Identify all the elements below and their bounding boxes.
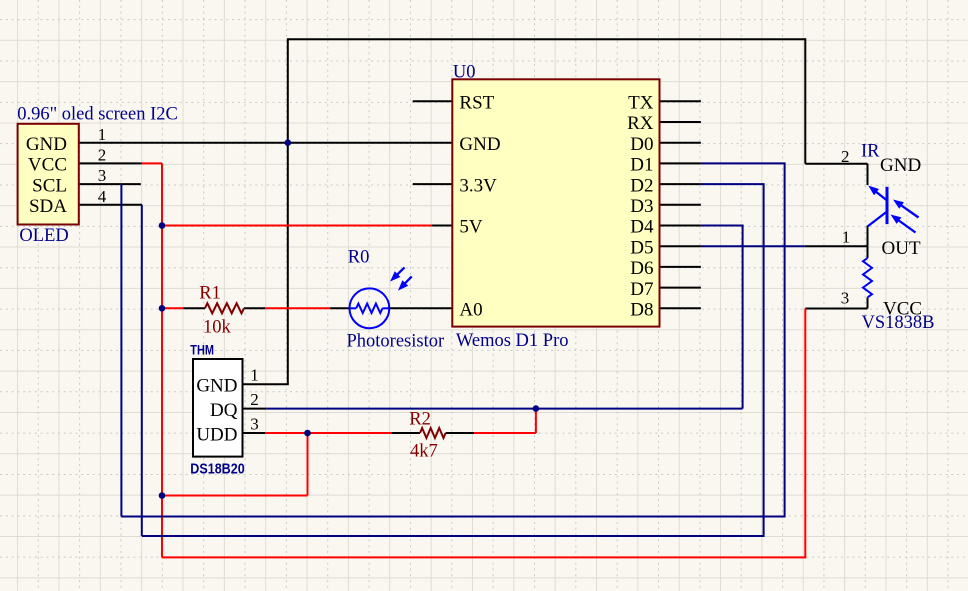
svg-text:5V: 5V (459, 217, 483, 238)
junction DQ (533, 405, 540, 412)
svg-text:SCL: SCL (32, 175, 67, 196)
wire OLED VCC stub (79, 162, 142, 164)
junction UDD (304, 430, 311, 437)
wire THM UDD stub (243, 432, 266, 434)
svg-text:DQ: DQ (210, 400, 238, 421)
wire OLED SCL stub (79, 183, 141, 185)
resistor inside IR receiver (blue vertical zigzag) (863, 258, 872, 297)
wire R2 right red (474, 432, 536, 434)
wire D2 navy (701, 183, 765, 185)
junction 5V-A (159, 222, 166, 229)
svg-text:THM: THM (190, 342, 214, 358)
svg-text:D7: D7 (630, 279, 653, 300)
wire D1 navy (701, 162, 786, 164)
svg-text:10k: 10k (203, 318, 232, 338)
wire D8 stub (660, 307, 701, 309)
transistor IR VS1838B base bar (886, 187, 889, 224)
photoresistor R0 symbol (350, 288, 390, 328)
wire R1 right red (265, 307, 330, 309)
svg-text:TX: TX (628, 93, 654, 114)
svg-text:GND: GND (880, 155, 921, 176)
wire D4 navy (701, 225, 744, 227)
svg-text:4: 4 (98, 187, 107, 206)
svg-text:R0: R0 (348, 247, 370, 267)
wire D1 stub black (660, 162, 701, 164)
wire DQ net navy (266, 408, 742, 410)
wire D6 stub (660, 266, 701, 268)
svg-text:IR: IR (861, 142, 880, 162)
component THM DS18B20 box (193, 359, 243, 457)
svg-text:Photoresistor: Photoresistor (347, 332, 445, 352)
svg-text:OLED: OLED (19, 226, 68, 246)
svg-text:3: 3 (98, 166, 107, 185)
wire GND vertical right to IR (804, 38, 806, 164)
svg-text:2: 2 (250, 390, 259, 409)
component U0 Wemos D1 Pro box (452, 79, 659, 326)
wire R2 leads (392, 432, 420, 434)
wire 5V red from OLED VCC (142, 162, 163, 164)
svg-text:GND: GND (459, 134, 500, 155)
wire 5V stub black (432, 225, 453, 227)
wire RST stub (413, 100, 453, 102)
svg-text:D8: D8 (630, 300, 653, 321)
wire D3 stub (660, 204, 701, 206)
svg-text:U0: U0 (453, 63, 476, 83)
svg-text:D6: D6 (630, 258, 653, 279)
svg-text:VCC: VCC (883, 299, 922, 320)
resistor R2 (420, 428, 446, 438)
wire D2 stub black (660, 183, 701, 185)
svg-text:GND: GND (26, 134, 67, 155)
wire 3.3V stub (413, 183, 453, 185)
svg-text:RST: RST (459, 93, 494, 114)
wire SDA net navy (141, 205, 143, 536)
junction GND (285, 139, 292, 146)
wire 5V branch y495 (162, 495, 308, 497)
transistor collector with arrow (868, 186, 887, 201)
svg-text:2: 2 (841, 147, 850, 166)
svg-text:3: 3 (841, 289, 850, 308)
light arrow 1 into R0 (390, 267, 404, 281)
svg-text:4k7: 4k7 (410, 442, 438, 462)
wire 5V vertical red (161, 163, 163, 557)
svg-text:RX: RX (627, 113, 654, 134)
light arrow 1 into transistor (893, 200, 919, 218)
wire VCC riser to IR pin3 (804, 309, 806, 559)
wire D5 to IR OUT navy (701, 245, 805, 247)
wire D5 stub black (660, 245, 701, 247)
svg-text:1: 1 (250, 366, 259, 385)
wire OLED GND to U0 GND (79, 142, 453, 144)
svg-text:VCC: VCC (28, 155, 67, 176)
wire OLED SDA stub (79, 204, 142, 206)
light arrow 2 into R0 (398, 276, 412, 290)
wire D0 stub (660, 142, 701, 144)
transistor emitter (868, 212, 887, 227)
svg-text:D4: D4 (630, 217, 654, 238)
svg-text:D5: D5 (630, 237, 653, 258)
wire TX stub (660, 100, 701, 102)
svg-text:0.96" oled screen I2C: 0.96" oled screen I2C (17, 105, 178, 125)
wire IR pin1 OUT (805, 245, 868, 247)
svg-text:D3: D3 (630, 196, 653, 217)
wire IR pin3 VCC (805, 308, 867, 310)
junction 5V-C (159, 492, 166, 499)
svg-text:GND: GND (196, 376, 237, 397)
svg-text:R2: R2 (409, 410, 431, 430)
wire 5V bottom bus red (162, 556, 805, 558)
junction 5V-B (159, 305, 166, 312)
wire SCL net navy (120, 184, 122, 516)
wire IR pin2 GND (805, 163, 867, 165)
wire THM DQ stub (243, 408, 267, 410)
wire D4 stub black (660, 225, 701, 227)
wire R1 leads (184, 307, 205, 309)
svg-text:1: 1 (98, 125, 107, 144)
wire R1 left red (162, 307, 184, 309)
wire A0 to photoresistor (330, 307, 350, 309)
svg-text:3: 3 (250, 415, 259, 434)
svg-text:D1: D1 (630, 155, 653, 176)
svg-text:R1: R1 (199, 284, 221, 304)
wire UDD red (265, 432, 391, 434)
svg-text:DS18B20: DS18B20 (190, 461, 244, 477)
component OLED display box (18, 124, 79, 225)
svg-text:A0: A0 (459, 300, 482, 321)
wire GND top bus (288, 38, 806, 40)
svg-text:D0: D0 (630, 134, 653, 155)
light arrow 2 into transistor (891, 215, 916, 233)
svg-text:Wemos D1 Pro: Wemos D1 Pro (456, 331, 569, 351)
svg-text:3.3V: 3.3V (459, 175, 497, 196)
wire D7 stub (660, 287, 701, 289)
svg-text:UDD: UDD (196, 424, 237, 445)
svg-text:SDA: SDA (29, 196, 67, 217)
svg-text:D2: D2 (630, 175, 653, 196)
wire 5V to U0 (162, 225, 432, 227)
svg-text:2: 2 (98, 146, 107, 165)
wire GND vertical left (287, 38, 289, 384)
svg-text:OUT: OUT (882, 238, 921, 259)
resistor R1 (205, 303, 244, 313)
svg-text:1: 1 (842, 227, 851, 246)
wire THM GND pin1 (243, 383, 289, 385)
wire RX stub (660, 121, 701, 123)
